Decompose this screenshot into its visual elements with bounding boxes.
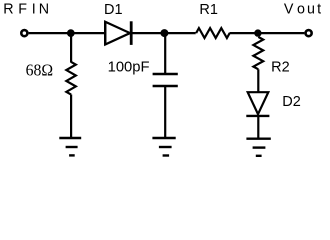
wire: [70, 95, 72, 138]
terminal RF IN: [21, 30, 27, 36]
node junction A: [67, 29, 75, 37]
svg-text:R1: R1: [199, 2, 218, 18]
resistor 68ohm: [66, 62, 76, 95]
node junction C: [254, 29, 261, 36]
resistor R1: [196, 28, 230, 38]
wire: [70, 33, 72, 62]
diode D2: [246, 92, 269, 116]
ground left: [59, 138, 81, 155]
wire: [257, 69, 259, 91]
svg-text:D1: D1: [104, 2, 123, 18]
wire: [164, 87, 166, 138]
ground right: [246, 139, 270, 156]
diode D1: [105, 21, 131, 45]
wire: [164, 33, 166, 73]
resistor R2: [253, 37, 263, 69]
node junction B: [160, 29, 168, 37]
wire: [131, 32, 196, 34]
svg-text:N: N: [39, 2, 49, 18]
svg-text:R F I: R F I: [3, 2, 36, 18]
wire: [29, 32, 106, 34]
terminal V out: [306, 30, 312, 36]
svg-text:V: V: [284, 2, 294, 18]
svg-text:100pF: 100pF: [108, 60, 150, 76]
svg-text:D2: D2: [282, 94, 301, 110]
svg-text:R2: R2: [271, 60, 290, 76]
wire: [257, 117, 259, 138]
svg-text:out: out: [297, 2, 323, 18]
wire: [230, 32, 305, 34]
ground middle: [152, 138, 175, 156]
capacitor C1: [153, 74, 178, 86]
svg-text:68Ω: 68Ω: [26, 61, 53, 80]
